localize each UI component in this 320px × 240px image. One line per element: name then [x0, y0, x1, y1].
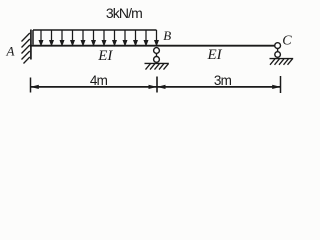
dimension extension tick at C — [280, 76, 282, 93]
svg-text:B: B — [163, 28, 171, 43]
ground line at B — [145, 62, 169, 64]
roller-link support at C: upper hinge circle — [275, 43, 281, 49]
dimension line 4m span — [31, 86, 158, 88]
roller-link support at B: upper hinge circle — [154, 48, 160, 54]
svg-text:4m: 4m — [90, 73, 108, 88]
dimension arrow left (points to B tick) — [157, 85, 166, 89]
dimension extension tick at A — [30, 78, 32, 93]
ground line at C — [270, 58, 294, 60]
svg-text:3kN/m: 3kN/m — [106, 5, 142, 21]
dimension extension tick at B — [156, 77, 158, 93]
distributed load top line — [33, 29, 157, 31]
dimension arrow right (points to C tick) — [272, 85, 281, 89]
ground hatching at C — [270, 59, 293, 65]
support C lower hinge circle — [275, 52, 281, 58]
beam A-B-C — [30, 45, 275, 47]
fixed wall support at A — [30, 30, 32, 60]
wall hatching at A — [22, 33, 30, 64]
support C link bar — [277, 48, 279, 52]
svg-text:C: C — [282, 33, 292, 48]
svg-text:EI: EI — [207, 47, 223, 63]
ground hatching at B — [146, 64, 169, 70]
support B lower hinge circle — [154, 57, 160, 63]
dimension arrow right (points to B tick) — [149, 85, 158, 89]
support B link bar — [156, 53, 158, 57]
dimension arrow left (points to A tick) — [30, 85, 39, 89]
svg-text:3m: 3m — [214, 73, 232, 88]
svg-text:EI: EI — [97, 48, 113, 64]
svg-text:A: A — [6, 44, 15, 59]
distributed load arrows — [39, 30, 158, 45]
distributed load left edge — [32, 30, 34, 45]
dimension line 3m span — [157, 86, 281, 88]
